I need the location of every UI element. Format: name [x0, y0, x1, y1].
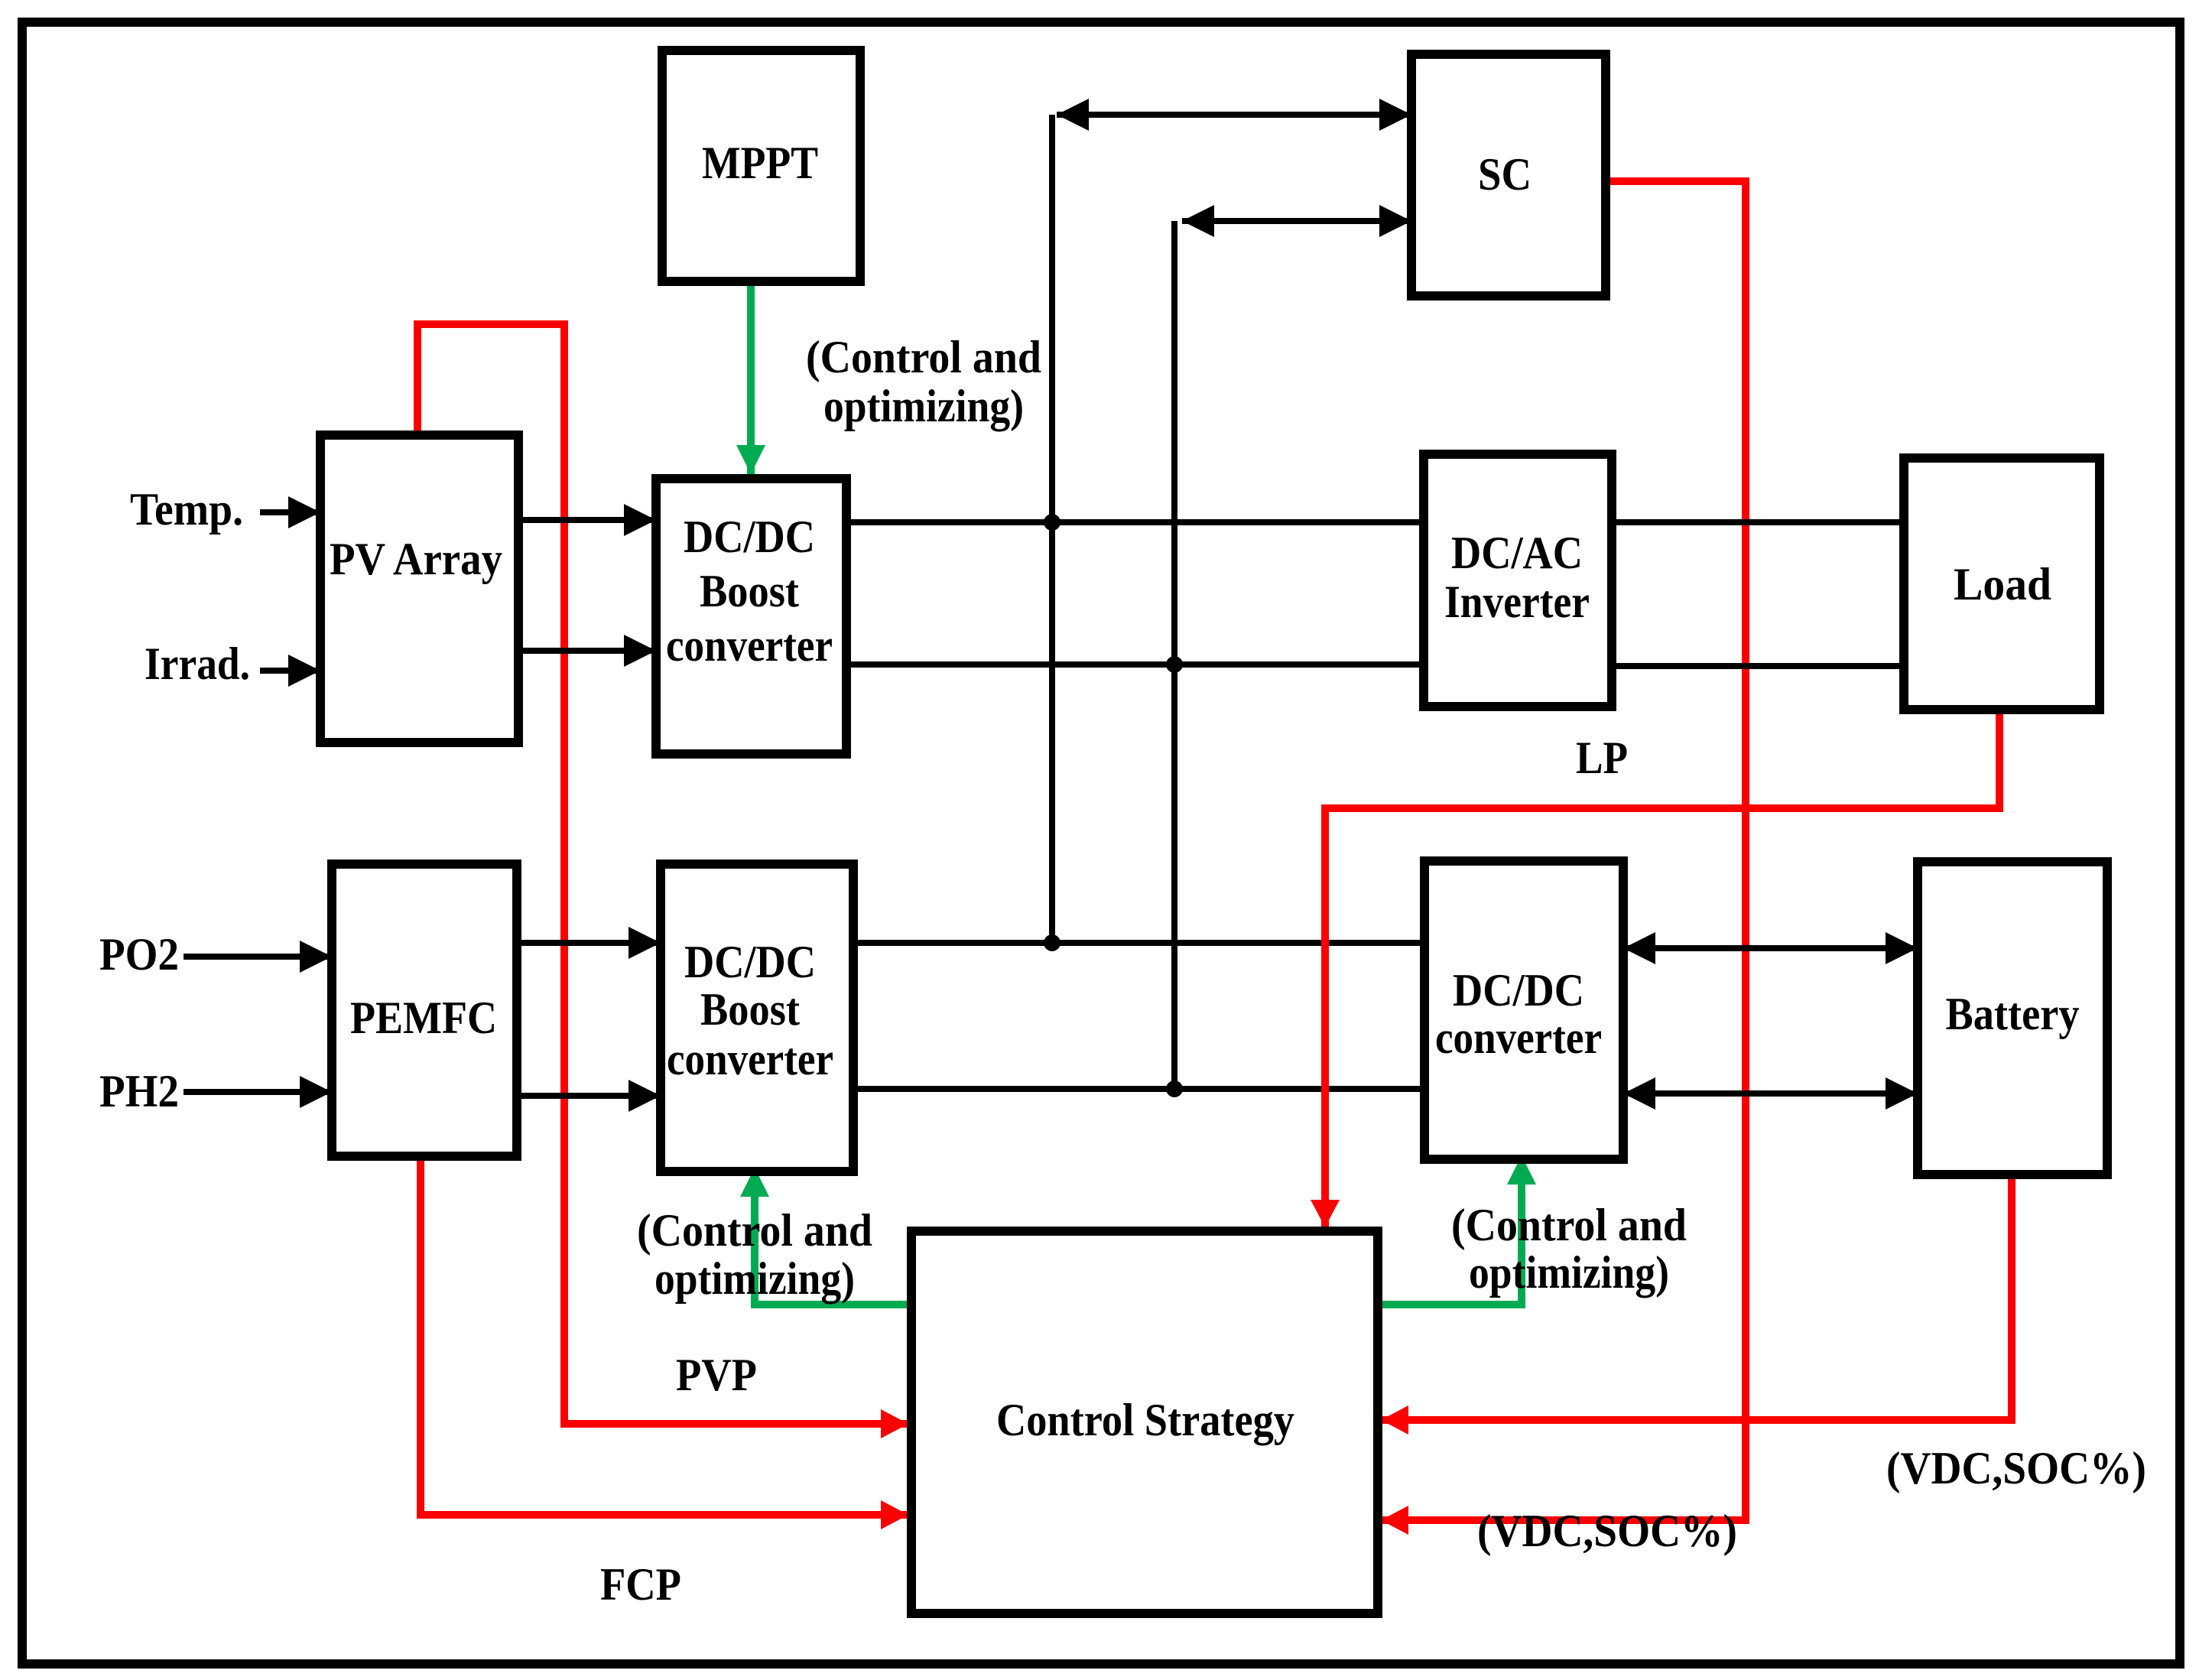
svg-text:Control Strategy: Control Strategy: [996, 1395, 1294, 1445]
svg-text:converter: converter: [666, 620, 833, 671]
svg-text:PO2: PO2: [99, 929, 179, 980]
svg-text:PV Array: PV Array: [330, 534, 502, 584]
svg-text:Temp.: Temp.: [130, 484, 243, 535]
svg-text:Load: Load: [1954, 559, 2051, 609]
svg-text:DC/DC: DC/DC: [1453, 965, 1584, 1015]
svg-text:DC/DC: DC/DC: [684, 937, 816, 987]
svg-text:(Control and: (Control and: [1451, 1200, 1687, 1250]
svg-text:DC/AC: DC/AC: [1451, 528, 1583, 578]
svg-text:DC/DC: DC/DC: [684, 512, 815, 562]
svg-text:(VDC,SOC%): (VDC,SOC%): [1477, 1506, 1737, 1556]
svg-text:(VDC,SOC%): (VDC,SOC%): [1886, 1443, 2146, 1493]
svg-text:optimizing): optimizing): [1469, 1247, 1669, 1298]
svg-text:converter: converter: [667, 1034, 833, 1084]
svg-text:LP: LP: [1576, 733, 1628, 783]
svg-text:Irrad.: Irrad.: [145, 639, 250, 689]
svg-text:Inverter: Inverter: [1444, 577, 1590, 627]
svg-text:SC: SC: [1478, 149, 1532, 200]
svg-text:(Control and: (Control and: [637, 1205, 872, 1256]
svg-text:Battery: Battery: [1946, 989, 2080, 1039]
svg-text:PEMFC: PEMFC: [350, 993, 497, 1043]
svg-text:MPPT: MPPT: [702, 138, 818, 188]
svg-text:Boost: Boost: [700, 566, 799, 616]
svg-text:optimizing): optimizing): [655, 1253, 855, 1304]
svg-text:Boost: Boost: [700, 984, 800, 1035]
svg-text:PH2: PH2: [99, 1066, 179, 1116]
svg-text:converter: converter: [1435, 1012, 1602, 1063]
svg-text:PVP: PVP: [676, 1350, 757, 1400]
svg-text:(Control and: (Control and: [806, 332, 1041, 382]
svg-text:FCP: FCP: [600, 1559, 681, 1610]
svg-text:optimizing): optimizing): [823, 381, 1024, 431]
